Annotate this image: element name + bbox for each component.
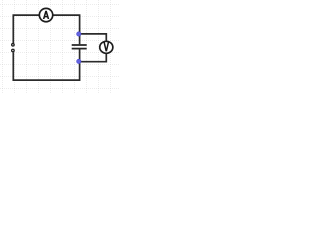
node junction bottom: [77, 59, 81, 63]
voltmeter V1: [100, 41, 113, 53]
background: [0, 0, 120, 94]
wire capacitor bottom to bottom-right corner, left and up to lower switch terminal: [13, 50, 79, 81]
wire ammeter right to top-right corner, down to capacitor: [53, 15, 79, 44]
wire left+top (from upper switch terminal up and right to ammeter): [13, 15, 39, 43]
grid dots: [0, 0, 120, 94]
capacitor C1 top plate: [72, 44, 87, 46]
switch terminal upper: [12, 44, 15, 47]
wire voltmeter top branch: [80, 34, 107, 41]
switch terminal lower: [12, 49, 15, 52]
node junction top: [77, 32, 81, 36]
ammeter A1: [39, 8, 52, 21]
wire voltmeter bottom branch: [80, 54, 107, 62]
capacitor C1 bottom plate: [72, 48, 87, 50]
